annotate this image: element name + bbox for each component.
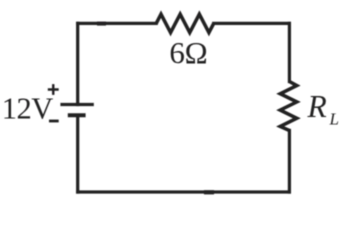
svg-text:6Ω: 6Ω bbox=[169, 35, 207, 70]
svg-text:R: R bbox=[307, 89, 327, 124]
svg-text:L: L bbox=[329, 110, 339, 129]
svg-text:12V: 12V bbox=[2, 91, 54, 125]
